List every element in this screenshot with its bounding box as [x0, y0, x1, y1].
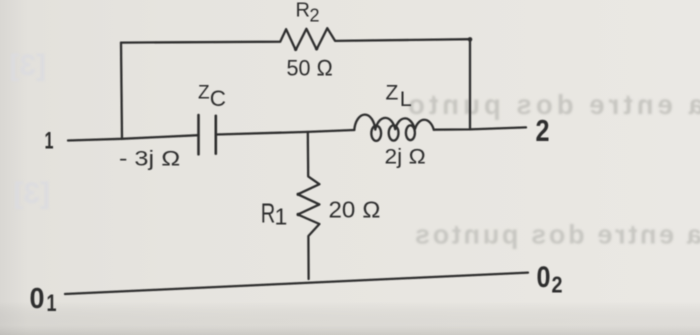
svg-text:0: 0 — [537, 261, 551, 294]
svg-text:2: 2 — [310, 6, 320, 26]
svg-text:C: C — [210, 86, 226, 111]
svg-text:[3]: [3] — [9, 49, 46, 82]
svg-text:2j Ω: 2j Ω — [385, 146, 427, 169]
svg-text:Z: Z — [198, 82, 210, 103]
svg-text:20 Ω: 20 Ω — [329, 197, 381, 223]
svg-text:a entre dos puntos: a entre dos puntos — [415, 220, 700, 250]
svg-text:50 Ω: 50 Ω — [287, 56, 334, 81]
svg-text:1: 1 — [275, 204, 288, 230]
svg-text:1: 1 — [45, 128, 54, 155]
svg-text:R: R — [261, 198, 276, 229]
svg-text:- 3j Ω: - 3j Ω — [119, 148, 181, 171]
svg-text:[3]: [3] — [13, 177, 50, 210]
svg-text:2: 2 — [536, 113, 550, 148]
svg-text:Z: Z — [386, 82, 399, 105]
svg-text:L: L — [400, 87, 412, 111]
svg-text:R: R — [296, 0, 310, 22]
svg-text:2: 2 — [552, 272, 563, 298]
svg-text:0: 0 — [30, 283, 45, 315]
svg-text:1: 1 — [47, 290, 57, 317]
